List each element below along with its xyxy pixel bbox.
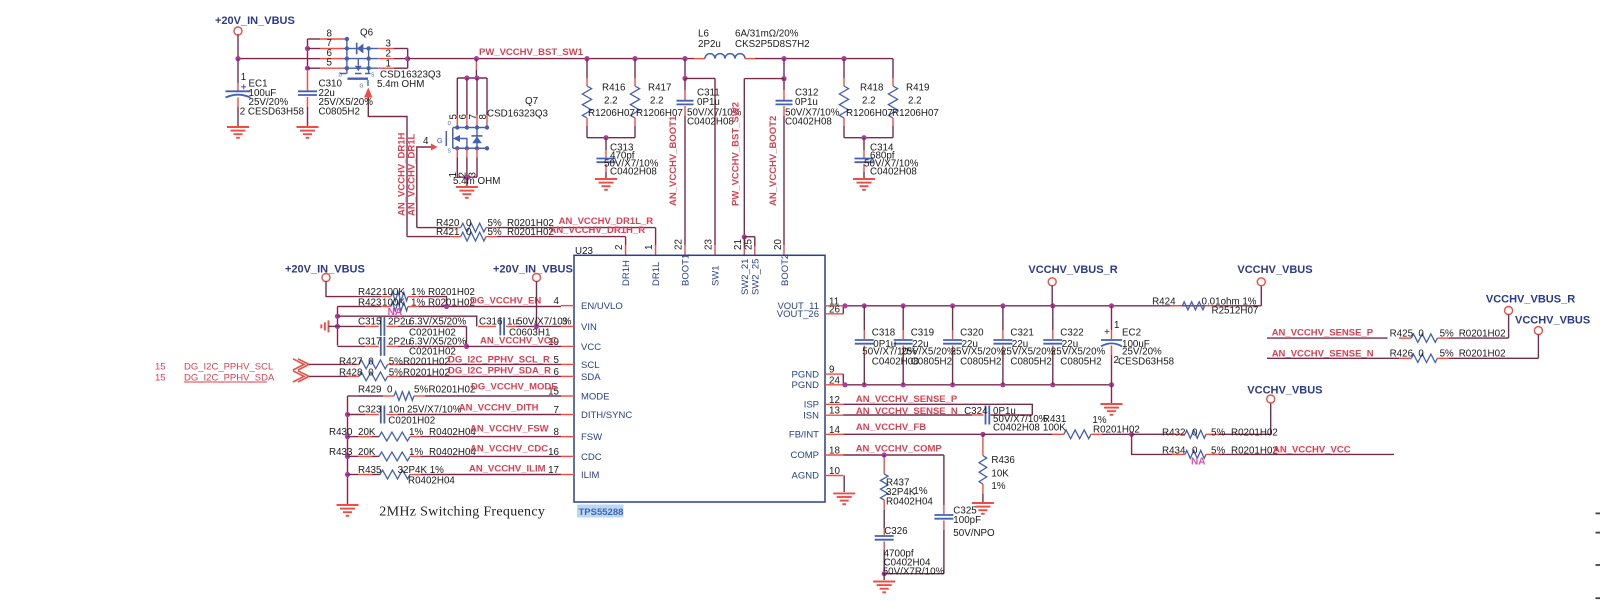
svg-text:EC2: EC2 <box>1122 328 1141 339</box>
svg-text:32P4K 1%: 32P4K 1% <box>398 465 445 476</box>
svg-text:ISP: ISP <box>804 400 819 411</box>
svg-text:SDA: SDA <box>581 372 601 383</box>
svg-text:AN_VCCHV_SENSE_P: AN_VCCHV_SENSE_P <box>1272 327 1374 338</box>
svg-text:DR1L: DR1L <box>651 262 662 286</box>
svg-text:C0402H08: C0402H08 <box>610 167 657 178</box>
svg-text:5%: 5% <box>414 385 428 396</box>
svg-text:R433: R433 <box>329 447 353 458</box>
svg-text:R1206H07: R1206H07 <box>892 108 939 119</box>
svg-text:0: 0 <box>1192 446 1198 457</box>
svg-text:25V/X7/10%: 25V/X7/10% <box>407 405 462 416</box>
svg-text:PGND: PGND <box>792 380 820 391</box>
svg-text:ILIM: ILIM <box>581 470 600 481</box>
svg-text:C318: C318 <box>872 328 896 339</box>
svg-text:1%: 1% <box>409 427 423 438</box>
svg-text:2: 2 <box>240 107 245 118</box>
svg-text:VCCHV_VBUS: VCCHV_VBUS <box>1237 264 1312 276</box>
svg-text:C0805H2: C0805H2 <box>911 357 952 368</box>
svg-text:C324: C324 <box>964 406 988 417</box>
svg-text:R435: R435 <box>358 465 382 476</box>
svg-text:C322: C322 <box>1060 328 1083 339</box>
svg-text:AN_VCCHV_DR1L: AN_VCCHV_DR1L <box>407 133 418 216</box>
svg-text:AN_VCCHV_COMP: AN_VCCHV_COMP <box>856 444 943 455</box>
svg-text:R0201H02: R0201H02 <box>429 385 476 396</box>
svg-text:C320: C320 <box>960 328 984 339</box>
svg-text:5: 5 <box>327 58 333 69</box>
svg-text:14: 14 <box>829 425 840 436</box>
svg-text:C0402H08: C0402H08 <box>993 423 1040 434</box>
svg-text:SW2_25: SW2_25 <box>750 259 761 295</box>
svg-text:10K: 10K <box>991 469 1009 480</box>
svg-text:R0402H04: R0402H04 <box>886 497 933 508</box>
svg-text:R434: R434 <box>1162 446 1186 457</box>
svg-text:R0201H02: R0201H02 <box>1231 427 1278 438</box>
svg-text:D: D <box>339 73 343 79</box>
svg-text:AN_VCCHV_DR1H_R: AN_VCCHV_DR1H_R <box>550 225 646 236</box>
svg-text:R0201H02: R0201H02 <box>1459 349 1506 360</box>
svg-text:12: 12 <box>829 395 840 406</box>
svg-text:R0201H02: R0201H02 <box>1231 446 1278 457</box>
svg-text:C316: C316 <box>479 316 503 327</box>
svg-text:1%: 1% <box>411 297 425 308</box>
svg-text:AN_VCCHV_DITH: AN_VCCHV_DITH <box>459 403 539 414</box>
svg-text:1%: 1% <box>913 486 927 497</box>
svg-text:R418: R418 <box>860 83 884 94</box>
svg-text:FB/INT: FB/INT <box>789 430 819 441</box>
svg-text:9: 9 <box>829 365 834 376</box>
svg-text:26: 26 <box>829 304 840 315</box>
svg-text:R0201H02: R0201H02 <box>403 367 450 378</box>
svg-text:23: 23 <box>704 239 715 250</box>
svg-text:21: 21 <box>733 239 744 250</box>
svg-text:DG_VCCHV_MODE: DG_VCCHV_MODE <box>471 382 558 393</box>
svg-text:PW_VCCHV_BST_SW1: PW_VCCHV_BST_SW1 <box>479 47 584 58</box>
svg-text:1: 1 <box>1114 320 1119 331</box>
svg-text:C323: C323 <box>358 405 382 416</box>
svg-text:0P1u: 0P1u <box>697 97 720 108</box>
svg-text:DG_VCCHV_EN: DG_VCCHV_EN <box>470 296 541 307</box>
svg-text:AN_VCCHV_VCC: AN_VCCHV_VCC <box>1273 445 1351 456</box>
svg-text:1: 1 <box>644 245 655 250</box>
svg-text:SW2_21: SW2_21 <box>740 259 751 295</box>
svg-text:0: 0 <box>368 357 374 368</box>
svg-text:2.2: 2.2 <box>604 96 618 107</box>
svg-text:AN_VCCHV_VCC: AN_VCCHV_VCC <box>480 335 558 346</box>
svg-text:25: 25 <box>743 239 754 250</box>
svg-text:CESD63H58: CESD63H58 <box>248 107 305 118</box>
svg-text:2: 2 <box>614 245 625 250</box>
svg-text:DR1H: DR1H <box>621 260 632 286</box>
svg-text:VCCHV_VBUS_R: VCCHV_VBUS_R <box>1028 264 1117 276</box>
svg-text:5%: 5% <box>1440 328 1454 339</box>
svg-text:2P2u: 2P2u <box>388 316 411 327</box>
svg-text:50V/NPO: 50V/NPO <box>953 528 995 539</box>
svg-text:5%: 5% <box>1440 349 1454 360</box>
svg-text:C317: C317 <box>358 336 381 347</box>
svg-text:CSD16323Q3: CSD16323Q3 <box>487 109 549 120</box>
svg-text:10: 10 <box>829 466 840 477</box>
svg-text:C0402H08: C0402H08 <box>870 167 917 178</box>
svg-text:R2512H07: R2512H07 <box>1212 306 1259 317</box>
svg-text:1%: 1% <box>409 447 423 458</box>
svg-text:0: 0 <box>368 367 374 378</box>
svg-text:AN_VCCHV_FB: AN_VCCHV_FB <box>856 422 926 433</box>
svg-text:R0402H04: R0402H04 <box>408 476 455 487</box>
svg-text:5%: 5% <box>389 367 403 378</box>
svg-text:6A/31mΩ/20%: 6A/31mΩ/20% <box>735 29 799 40</box>
svg-text:VCC: VCC <box>581 342 601 353</box>
svg-text:5.4m OHM: 5.4m OHM <box>377 79 424 90</box>
svg-text:C315: C315 <box>358 316 382 327</box>
svg-text:C0805H2: C0805H2 <box>1010 357 1051 368</box>
svg-text:1: 1 <box>241 72 246 83</box>
svg-text:D: D <box>448 121 452 127</box>
svg-text:C0402H08: C0402H08 <box>687 117 734 128</box>
svg-text:1%: 1% <box>991 481 1005 492</box>
svg-text:+20V_IN_VBUS: +20V_IN_VBUS <box>493 264 573 276</box>
svg-text:R424: R424 <box>1152 297 1176 308</box>
svg-text:AN_VCCHV_BOOT1: AN_VCCHV_BOOT1 <box>668 115 679 206</box>
svg-text:CESD63H58: CESD63H58 <box>1118 357 1175 368</box>
svg-text:AN_VCCHV_FSW: AN_VCCHV_FSW <box>470 424 549 435</box>
svg-text:AN_VCCHV_BOOT2: AN_VCCHV_BOOT2 <box>768 116 779 206</box>
svg-text:20K: 20K <box>358 427 376 438</box>
svg-text:C321: C321 <box>1010 328 1033 339</box>
svg-text:13: 13 <box>829 406 840 417</box>
svg-text:BOOT1: BOOT1 <box>680 254 691 286</box>
svg-text:4: 4 <box>554 296 560 307</box>
svg-text:NA: NA <box>1191 457 1205 468</box>
svg-text:Q7: Q7 <box>525 96 538 107</box>
svg-text:R0201H02: R0201H02 <box>428 297 475 308</box>
svg-text:R430: R430 <box>329 427 353 438</box>
svg-text:R425: R425 <box>1390 328 1414 339</box>
svg-text:5%: 5% <box>389 357 403 368</box>
svg-text:2P2u: 2P2u <box>388 336 411 347</box>
svg-text:DITH/SYNC: DITH/SYNC <box>581 410 632 421</box>
svg-text:5%: 5% <box>1211 427 1225 438</box>
svg-text:100K: 100K <box>1043 423 1066 434</box>
svg-text:20: 20 <box>773 239 784 250</box>
svg-text:R0201H02: R0201H02 <box>1459 328 1506 339</box>
svg-text:2.2: 2.2 <box>862 96 876 107</box>
svg-text:5.4m OHM: 5.4m OHM <box>453 176 500 187</box>
svg-text:R429: R429 <box>358 385 381 396</box>
svg-text:R421: R421 <box>436 227 459 238</box>
svg-text:SCL: SCL <box>581 360 599 371</box>
svg-text:TPS55288: TPS55288 <box>579 507 624 518</box>
svg-text:DG_I2C_PPHV_SCL: DG_I2C_PPHV_SCL <box>184 362 273 373</box>
svg-text:2P2u: 2P2u <box>698 39 721 50</box>
svg-text:VCCHV_VBUS_R: VCCHV_VBUS_R <box>1486 294 1575 306</box>
svg-text:6.3V/X5/20%: 6.3V/X5/20% <box>409 316 466 327</box>
svg-text:C319: C319 <box>911 328 934 339</box>
svg-text:3: 3 <box>562 316 568 327</box>
svg-text:CDC: CDC <box>581 452 602 463</box>
svg-text:R419: R419 <box>906 83 929 94</box>
svg-text:20K: 20K <box>358 447 376 458</box>
svg-text:AN_VCCHV_ILIM: AN_VCCHV_ILIM <box>469 464 546 475</box>
svg-text:AGND: AGND <box>792 471 820 482</box>
svg-text:R428: R428 <box>339 367 363 378</box>
svg-text:R432: R432 <box>1162 427 1185 438</box>
svg-text:15: 15 <box>155 362 166 373</box>
svg-text:DG_I2C_PPHV_SCL_R: DG_I2C_PPHV_SCL_R <box>448 355 550 366</box>
svg-text:0: 0 <box>1418 349 1424 360</box>
svg-text:C0805H2: C0805H2 <box>1060 357 1101 368</box>
svg-text:R0201H02: R0201H02 <box>507 227 554 238</box>
svg-text:ISN: ISN <box>803 410 819 421</box>
svg-text:2.2: 2.2 <box>650 96 664 107</box>
svg-text:0: 0 <box>387 385 393 396</box>
svg-text:G: G <box>360 84 364 90</box>
svg-text:100pF: 100pF <box>953 515 981 526</box>
svg-text:PGND: PGND <box>792 369 820 380</box>
svg-text:5%: 5% <box>1211 446 1225 457</box>
svg-text:AN_VCCHV_CDC: AN_VCCHV_CDC <box>470 444 548 455</box>
svg-text:R427: R427 <box>339 357 362 368</box>
svg-text:C0402H08: C0402H08 <box>785 117 832 128</box>
svg-text:R1206H07: R1206H07 <box>588 108 635 119</box>
svg-text:AN_VCCHV_SENSE_P: AN_VCCHV_SENSE_P <box>856 394 958 405</box>
svg-text:VIN: VIN <box>581 322 597 333</box>
svg-text:FSW: FSW <box>581 432 602 443</box>
svg-text:0P1u: 0P1u <box>795 97 818 108</box>
svg-text:C326: C326 <box>884 526 908 537</box>
svg-text:0: 0 <box>466 227 472 238</box>
svg-text:MODE: MODE <box>581 391 610 402</box>
svg-text:C0805H2: C0805H2 <box>960 357 1001 368</box>
svg-text:R416: R416 <box>602 83 626 94</box>
svg-text:VOUT_26: VOUT_26 <box>777 309 819 320</box>
svg-text:G: G <box>437 136 443 145</box>
svg-text:L6: L6 <box>698 29 709 40</box>
svg-text:C0201H02: C0201H02 <box>388 416 435 427</box>
svg-text:R0201H02: R0201H02 <box>403 357 450 368</box>
svg-text:1: 1 <box>386 58 391 69</box>
svg-text:5%: 5% <box>488 227 502 238</box>
svg-text:4: 4 <box>423 136 429 147</box>
svg-text:2.2: 2.2 <box>908 96 922 107</box>
svg-text:PW_VCCHV_BST_SW2: PW_VCCHV_BST_SW2 <box>731 102 742 206</box>
svg-text:SW1: SW1 <box>711 265 722 286</box>
svg-text:10n: 10n <box>388 405 404 416</box>
svg-text:EN/UVLO: EN/UVLO <box>581 301 623 312</box>
svg-text:50V/X7R/10%: 50V/X7R/10% <box>883 566 945 577</box>
svg-text:Q6: Q6 <box>360 28 374 39</box>
svg-text:C0805H2: C0805H2 <box>319 107 360 118</box>
svg-text:VCCHV_VBUS: VCCHV_VBUS <box>1515 315 1590 327</box>
svg-text:0: 0 <box>1192 427 1198 438</box>
svg-text:2MHz Switching Frequency: 2MHz Switching Frequency <box>379 504 545 519</box>
svg-text:22: 22 <box>673 239 684 250</box>
svg-text:U23: U23 <box>575 246 594 257</box>
svg-text:VCCHV_VBUS: VCCHV_VBUS <box>1247 385 1322 397</box>
svg-text:R436: R436 <box>991 455 1015 466</box>
svg-text:COMP: COMP <box>791 450 820 461</box>
svg-text:BOOT2: BOOT2 <box>780 254 791 286</box>
svg-text:DG_I2C_PPHV_SDA_R: DG_I2C_PPHV_SDA_R <box>448 365 551 376</box>
svg-text:R426: R426 <box>1390 349 1414 360</box>
svg-text:R417: R417 <box>648 83 671 94</box>
svg-text:R423: R423 <box>358 297 382 308</box>
svg-text:0: 0 <box>1418 328 1424 339</box>
svg-text:+20V_IN_VBUS: +20V_IN_VBUS <box>215 15 295 27</box>
svg-text:CKS2P5D8S7H2: CKS2P5D8S7H2 <box>735 39 810 50</box>
svg-text:R1206H07: R1206H07 <box>846 108 893 119</box>
svg-text:18: 18 <box>829 446 840 457</box>
svg-text:24: 24 <box>829 375 840 386</box>
svg-text:15: 15 <box>155 373 166 384</box>
